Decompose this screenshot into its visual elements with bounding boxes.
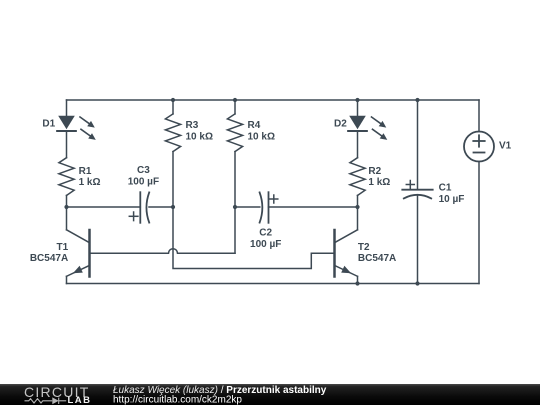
node top rail / C1: [415, 98, 419, 102]
wire V1 bottom lead: [478, 162, 480, 284]
wire R4 top lead: [234, 100, 236, 114]
svg-text:T1: T1: [57, 242, 69, 253]
wire T2 collector: [357, 207, 359, 230]
label R2 value "R2 1 kΩ": [368, 166, 390, 188]
wire C3 to R3 node: [149, 206, 173, 208]
resistor R4: [227, 114, 242, 152]
wire node to C3: [67, 206, 141, 208]
wire R1 to collector node: [66, 195, 68, 229]
logo CIRCUIT LAB: [24, 384, 92, 405]
wire C1 top lead: [417, 100, 419, 190]
node R3 / C3 junction: [171, 205, 175, 209]
wire V1 top lead: [478, 100, 480, 132]
node R4 / C2 junction: [233, 205, 237, 209]
wire C2 to T2 collector node: [269, 206, 358, 208]
svg-text:100 µF: 100 µF: [250, 239, 281, 250]
svg-text:R4: R4: [248, 120, 261, 131]
wire top rail: [67, 99, 480, 101]
svg-text:R3: R3: [186, 120, 199, 131]
capacitor C3: [129, 192, 149, 223]
node T2 emitter / bottom rail: [355, 281, 359, 285]
svg-text:10 µF: 10 µF: [439, 194, 465, 205]
node top rail / R3: [171, 98, 175, 102]
wire D1 branch top: [66, 100, 68, 116]
svg-text:http://circuitlab.com/ck2m2kp: http://circuitlab.com/ck2m2kp: [113, 395, 242, 405]
label T2 "T2 BC547A": [358, 242, 396, 264]
svg-text:BC547A: BC547A: [30, 253, 68, 264]
wire T1 base line with hop over R3 wire: [90, 249, 236, 254]
svg-text:LAB: LAB: [68, 395, 92, 405]
label R1 value "R1 1 kΩ": [79, 166, 101, 188]
wire R3 bottom lead: [172, 152, 174, 207]
resistor R1: [59, 158, 74, 196]
transistor T1: [67, 230, 90, 277]
wire D1 to R1: [66, 131, 68, 158]
resistor R3: [165, 114, 180, 152]
node top rail / D2: [355, 98, 359, 102]
label R4 value "R4 10 kΩ": [248, 120, 275, 142]
svg-text:1 kΩ: 1 kΩ: [79, 177, 101, 188]
voltage source V1: [464, 132, 494, 162]
capacitor C1: [402, 181, 432, 199]
wire D2 to R2: [357, 131, 359, 158]
label C1 value "C1 10 µF": [439, 182, 465, 205]
LED D2: [348, 116, 387, 140]
wire R3 node to T2 base: [173, 207, 335, 269]
label C2 value "C2 100 µF": [250, 228, 281, 250]
transistor T2: [335, 230, 358, 277]
svg-text:R2: R2: [368, 166, 381, 177]
wire D2 branch top: [357, 100, 359, 116]
node top rail / R4: [233, 98, 237, 102]
svg-text:100 µF: 100 µF: [128, 177, 159, 188]
svg-text:C1: C1: [439, 182, 452, 193]
svg-text:BC547A: BC547A: [358, 253, 396, 264]
node C1 / bottom rail: [415, 281, 419, 285]
label C3 value "C3 100 µF": [128, 165, 159, 187]
svg-text:R1: R1: [79, 166, 92, 177]
resistor R2: [350, 158, 365, 196]
label R3 value "R3 10 kΩ": [186, 120, 213, 142]
svg-text:D1: D1: [42, 118, 55, 129]
svg-text:10 kΩ: 10 kΩ: [186, 131, 213, 142]
wire bottom rail: [67, 283, 480, 285]
wire R3 top lead: [172, 100, 174, 114]
wire C1 bottom lead: [417, 196, 419, 284]
svg-text:10 kΩ: 10 kΩ: [248, 131, 275, 142]
LED D1: [57, 116, 96, 140]
svg-text:1 kΩ: 1 kΩ: [368, 177, 390, 188]
svg-text:D2: D2: [334, 118, 347, 129]
svg-text:C2: C2: [259, 228, 272, 239]
footer title text: [113, 385, 327, 405]
wire R2 to T2 collector node: [357, 195, 359, 207]
node T1 collector / C3 left: [64, 205, 68, 209]
node T2 collector / C2 right: [355, 205, 359, 209]
svg-text:V1: V1: [499, 140, 512, 151]
wire R4 node to C2: [235, 206, 260, 208]
svg-text:T2: T2: [358, 242, 370, 253]
wire R4 node down to T1 base line: [234, 207, 236, 253]
wire T2 emitter to bottom rail: [357, 276, 359, 283]
capacitor C2: [260, 192, 278, 223]
svg-text:C3: C3: [137, 165, 150, 176]
wire R4 bottom lead: [234, 152, 236, 207]
label T1 "T1 BC547A": [30, 242, 69, 264]
wire T1 emitter to bottom rail: [66, 276, 68, 283]
